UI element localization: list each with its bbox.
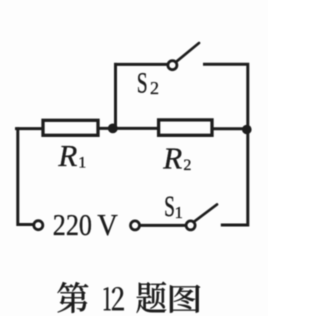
switch S1 pivot circle (186, 221, 195, 230)
source terminal circle (220V left) (34, 221, 43, 230)
wire: S2 right stub, right vertical, bottom-right stub (205, 64, 248, 225)
label R1 (57, 138, 86, 173)
switch S1 lever (194, 204, 217, 221)
svg-text:R: R (162, 140, 182, 175)
svg-text:220: 220 (53, 208, 92, 242)
wire: S1 connecting segment between contacts (141, 224, 186, 227)
svg-text:1: 1 (78, 154, 86, 171)
switch S2 pivot circle (168, 61, 177, 70)
svg-text:V: V (97, 208, 118, 242)
wire: left vertical branch (18, 129, 33, 225)
wire: S2 branch vertical from node A (114, 64, 117, 128)
svg-text:2: 2 (183, 157, 191, 174)
label S2 (137, 67, 159, 100)
resistor R1 (43, 120, 98, 135)
wire: S2 branch top-left horizontal (116, 63, 167, 66)
wire: middle row segment R2 to right vertical (214, 127, 248, 130)
svg-text:2: 2 (150, 78, 159, 98)
svg-text:S: S (137, 67, 148, 100)
svg-text:S: S (164, 190, 175, 223)
wire: middle row segment R1 to R2 through node (100, 127, 158, 130)
label 220 V source value (53, 208, 118, 242)
node A junction dot (108, 123, 118, 133)
switch S1 left contact circle (131, 221, 140, 230)
caption glyph 图 (170, 285, 200, 313)
caption glyph 第 (57, 282, 88, 313)
resistor R2 (159, 120, 212, 135)
svg-text:R: R (57, 138, 77, 173)
label S1 (164, 190, 183, 223)
switch S2 lever (176, 43, 199, 62)
caption: 第 12 题图 (57, 282, 200, 313)
caption glyph 2 (112, 287, 124, 310)
label R2 (162, 140, 191, 175)
caption glyph 1 (104, 287, 111, 310)
caption glyph 题 (137, 282, 167, 313)
wire: middle row left segment to R1 (17, 127, 42, 130)
svg-text:1: 1 (175, 203, 183, 222)
node B junction dot (242, 125, 252, 135)
